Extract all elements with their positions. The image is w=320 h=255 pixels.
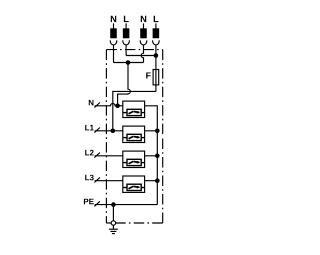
branch slash L1 bbox=[94, 128, 100, 133]
clamp fork X1 bbox=[110, 40, 117, 45]
label L (top terminal 4) bbox=[154, 16, 159, 22]
clamp fork X4 bbox=[153, 40, 160, 45]
wire: N entry with hop over fuse drop, to node N bbox=[95, 104, 118, 106]
varistor U1 bbox=[123, 109, 145, 115]
terminal block X3 (N) bbox=[141, 29, 146, 38]
branch slash N bbox=[94, 103, 100, 108]
junction dot: N bus tap bbox=[126, 60, 131, 65]
branch slash L2 bbox=[94, 153, 100, 158]
junction dot: node N bbox=[115, 104, 120, 109]
label F bbox=[146, 72, 150, 78]
wire: earth stub from PE dot to earthing terminal bbox=[112, 205, 114, 221]
wire: X1 stem down to N bus bbox=[113, 45, 115, 63]
wire: X2 stem down to L bus bbox=[125, 45, 127, 56]
varistor U2 bbox=[123, 134, 145, 140]
label N (top terminal 3) bbox=[141, 16, 146, 22]
wire: L2 entry to module 3 bbox=[95, 155, 123, 157]
wire: through fuse down to fuse output line bbox=[155, 70, 157, 92]
wire: module 2 to right bus bbox=[145, 131, 158, 156]
label N (left) bbox=[89, 100, 94, 106]
label L (top terminal 2) bbox=[124, 16, 129, 22]
enclosure bottom-left corner solid stub bbox=[106, 222, 111, 224]
wire: N bus descender with hop over fuse line, to node N bbox=[118, 63, 131, 106]
wire: node N to module 1 bbox=[118, 105, 123, 107]
junction dot: right bus L3 row bbox=[155, 178, 160, 183]
label L3 (left) bbox=[85, 175, 94, 181]
wire: N bus (y=62.5) bbox=[114, 62, 144, 64]
label L2 (left) bbox=[85, 150, 93, 156]
fuse F rectangle bbox=[153, 70, 159, 85]
varistor U3 bbox=[123, 159, 145, 165]
label L1 (left) bbox=[85, 125, 94, 130]
SPD module 4 (L3) box bbox=[123, 176, 145, 192]
wire: module 4 to right bus, down to PE wire bbox=[145, 181, 158, 205]
wire: module 1 to right bus bbox=[145, 106, 158, 131]
varistor U4 bbox=[123, 184, 145, 190]
wire: PE entry across to right bus bbox=[95, 204, 158, 206]
wire: L bus (y=55.5) bbox=[126, 55, 156, 57]
terminal X1 lead-in wire bbox=[113, 23, 115, 29]
terminal X3 lead-in wire bbox=[143, 23, 145, 29]
wire: X4 stem down to fuse bbox=[155, 45, 157, 70]
clamp fork X2 bbox=[123, 40, 130, 45]
terminal block X2 (L) bbox=[123, 29, 128, 38]
wire: L3 entry to module 4 bbox=[95, 180, 123, 182]
SPD module 2 (L1) box bbox=[123, 126, 145, 142]
junction dot: right bus L1 row bbox=[155, 129, 160, 134]
terminal X2 lead-in wire bbox=[125, 23, 127, 29]
branch slash PE bbox=[94, 201, 100, 206]
wire: fuse output line (y=91.4) to left drop bbox=[113, 91, 156, 130]
label N (top terminal 1) bbox=[111, 16, 116, 22]
ground symbol bbox=[109, 225, 118, 234]
SPD module 3 (L2) box bbox=[123, 151, 145, 167]
SPD module 1 (N) box bbox=[123, 101, 145, 117]
earthing terminal circle on enclosure bbox=[111, 221, 115, 225]
branch slash L3 bbox=[94, 177, 100, 182]
wire: L1 entry to module 2 bbox=[95, 130, 123, 132]
enclosure dash-dot boundary bbox=[106, 50, 162, 223]
terminal block X4 (L) bbox=[153, 29, 158, 38]
terminal X4 lead-in wire bbox=[155, 23, 157, 29]
wire: X3 stem with hop over L bus, joining N bus bbox=[141, 45, 143, 63]
junction dot: PE / earth stub bbox=[111, 202, 116, 207]
junction dot: right bus L2 row bbox=[155, 154, 160, 159]
wire: module 3 to right bus bbox=[145, 156, 158, 181]
junction dot: L1 / fuse drop bbox=[111, 129, 116, 134]
terminal block X1 (N) bbox=[111, 29, 116, 38]
junction dot: L bus / X4 bbox=[154, 53, 159, 58]
label PE (left) bbox=[84, 199, 94, 205]
clamp fork X3 bbox=[140, 40, 147, 45]
